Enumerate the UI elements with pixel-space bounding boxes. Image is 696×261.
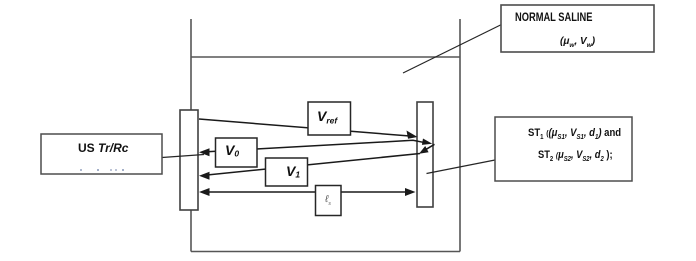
wire: distance double arrow <box>206 191 409 193</box>
arrowhead V_0 at transducer <box>199 148 210 156</box>
water tank left wall <box>190 19 192 252</box>
left ultrasound transducer <box>180 110 198 210</box>
label V_0 <box>225 143 239 158</box>
water surface line <box>191 56 460 58</box>
leader line from US Tr/Rc box to transducer <box>162 155 204 158</box>
faint dots under US Tr/Rc <box>80 169 82 171</box>
wire: V_1 echo line <box>207 154 420 176</box>
leader line from tank water to NORMAL SALINE box <box>403 25 502 74</box>
box ST parameters <box>495 117 632 181</box>
left arrowhead of distance arrow <box>199 188 210 196</box>
label ST2 parameters <box>538 149 613 163</box>
arrowhead at sample back face <box>422 139 432 145</box>
box US Tr/Rc <box>41 134 162 174</box>
label NORMAL SALINE <box>515 12 592 24</box>
label US Tr/Rc <box>78 141 128 155</box>
label ST1 parameters <box>528 127 621 141</box>
box NORMAL SALINE <box>501 5 654 52</box>
label V_1 <box>286 164 300 179</box>
label box path length <box>316 186 342 216</box>
wire: V_0 echo line <box>207 140 425 152</box>
label V_ref <box>317 109 337 125</box>
right arrowhead of distance arrow <box>405 188 416 196</box>
water tank right wall <box>459 19 461 252</box>
arrowhead at sample front face <box>407 131 418 139</box>
leader line from sample to ST box <box>427 160 496 174</box>
label box V_1 <box>266 158 308 186</box>
water tank bottom <box>191 251 460 253</box>
label (mu_w, V_w) <box>560 36 595 49</box>
wire: back-face reflection stub <box>422 144 435 152</box>
wire: V_ref transmit line <box>199 119 413 136</box>
label box V_0 <box>216 138 258 167</box>
arrowhead V_1 at transducer <box>199 172 210 180</box>
label box V_ref <box>308 102 351 135</box>
label path length l <box>315 186 341 214</box>
right sample holder ST1/ST2 <box>417 102 433 207</box>
arrowhead on stub <box>419 146 429 154</box>
